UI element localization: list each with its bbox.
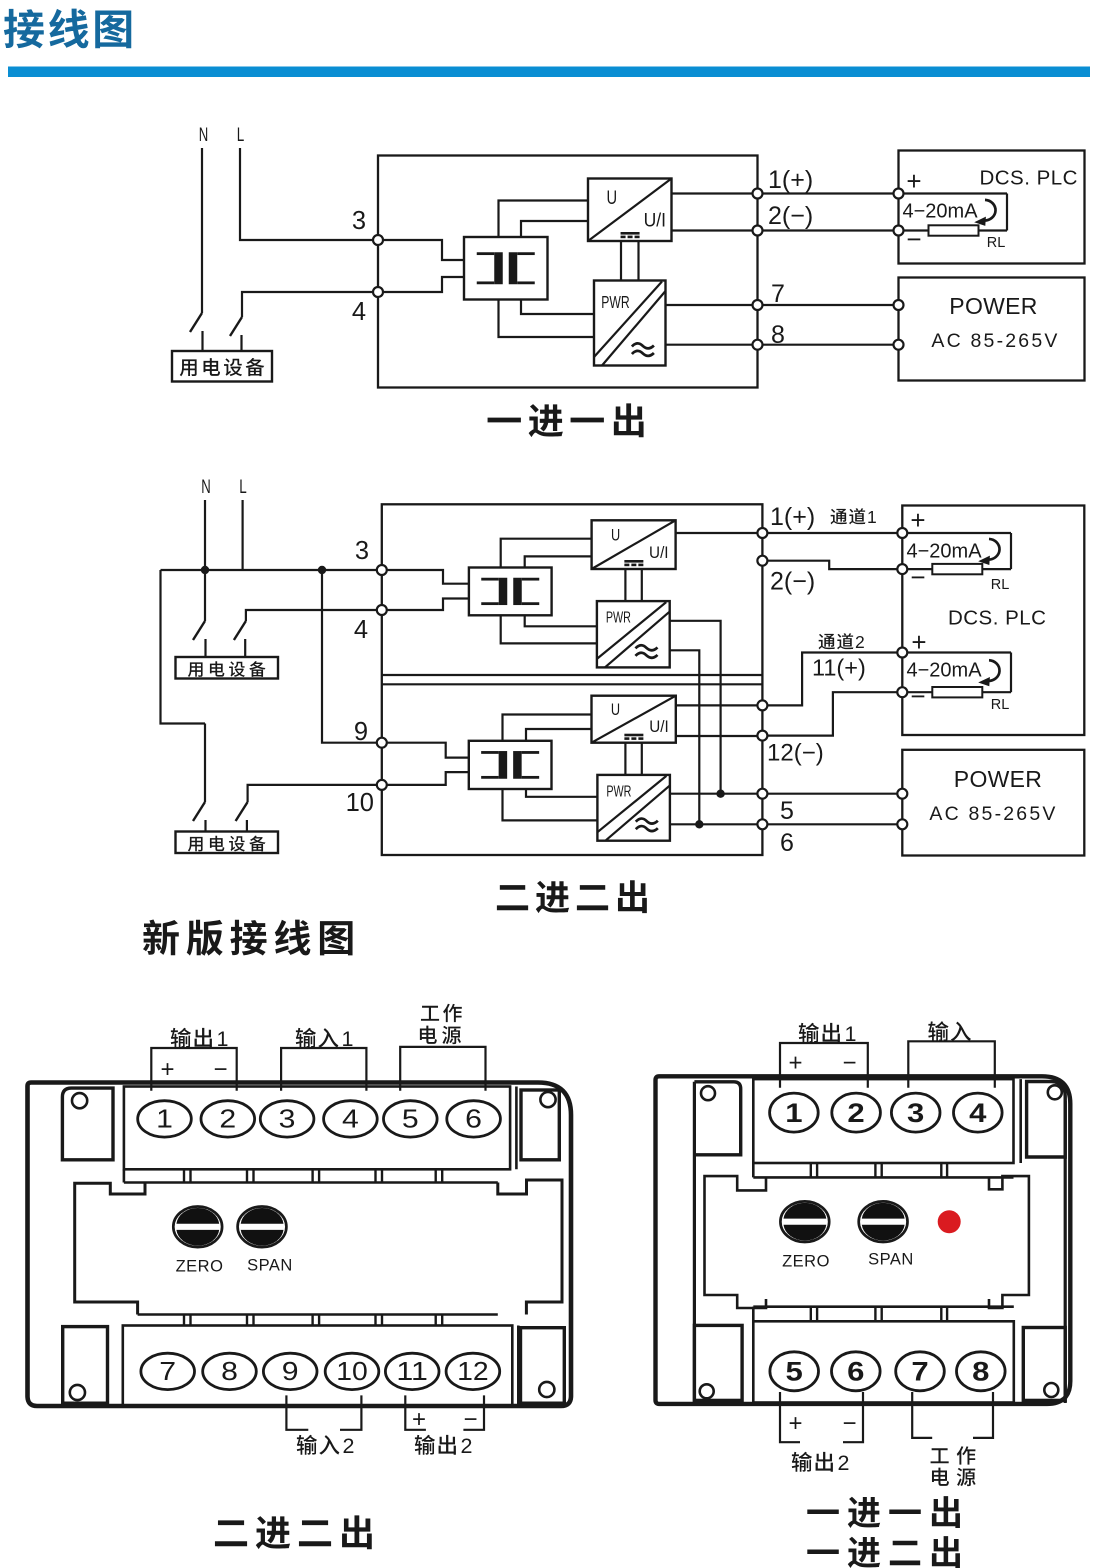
bracket 输出1 rb xyxy=(780,1043,868,1088)
svg-text:N: N xyxy=(201,476,211,498)
screw tab bottom-left rb xyxy=(694,1325,742,1400)
terminal 3 ellipse rb xyxy=(891,1093,940,1132)
svg-text:U: U xyxy=(606,188,617,209)
switch S6 d2 xyxy=(236,802,248,821)
svg-text:10: 10 xyxy=(346,789,374,817)
svg-text:2(−): 2(−) xyxy=(768,202,813,230)
screw tab bottom-right xyxy=(521,1328,565,1404)
top terminal strip xyxy=(124,1087,510,1170)
caption 一进二出 rb xyxy=(807,1550,838,1554)
bracket 输出2 rb xyxy=(780,1392,800,1442)
svg-text:8: 8 xyxy=(972,1357,989,1387)
svg-text:ZERO: ZERO xyxy=(176,1258,224,1276)
terminal 4 ellipse rb xyxy=(954,1093,1003,1132)
svg-text:5: 5 xyxy=(786,1357,803,1387)
4-20mA loop ch1 xyxy=(902,532,1011,534)
bracket 工作电源 xyxy=(400,1047,485,1091)
diagram 1: one-in one-out xyxy=(172,124,1085,437)
svg-text:8: 8 xyxy=(221,1356,238,1386)
svg-text:1: 1 xyxy=(845,1022,857,1046)
label 通道2 xyxy=(819,634,835,650)
POWER box D2 xyxy=(902,750,1084,856)
svg-text:N: N xyxy=(199,124,209,146)
screw tab top-left rb xyxy=(694,1082,740,1155)
terminal 2 ellipse rb xyxy=(832,1093,881,1132)
top terminal strip rb xyxy=(753,1079,1013,1163)
transformer T1 xyxy=(464,237,548,300)
wire t4 to transformer T2 xyxy=(387,599,469,611)
terminal layout drawing: 二进二出 module xyxy=(28,1004,572,1550)
svg-text:4−20mA: 4−20mA xyxy=(907,660,983,682)
POWER box D1 xyxy=(899,278,1085,381)
svg-text:1: 1 xyxy=(217,1027,229,1051)
screw tab top-left xyxy=(62,1088,113,1160)
terminal 1(+) node d2 xyxy=(757,528,767,538)
wire T3 to U/I U3 upper xyxy=(503,715,592,741)
wire rail to terminal 9 xyxy=(322,570,382,743)
svg-text:3: 3 xyxy=(279,1103,296,1133)
svg-text:+: + xyxy=(788,1049,802,1076)
svg-text:L: L xyxy=(237,124,245,146)
terminal 10 ellipse xyxy=(325,1353,379,1389)
svg-text:DCS. PLC: DCS. PLC xyxy=(948,607,1047,630)
terminal 7 ellipse rb xyxy=(896,1352,945,1391)
wire T1 to PWR (lower) xyxy=(499,300,595,338)
svg-text:4: 4 xyxy=(969,1098,986,1128)
terminal 5 node xyxy=(757,789,767,799)
partition rail upper xyxy=(382,674,763,676)
wire N feeder xyxy=(201,148,203,313)
terminal 1 ellipse xyxy=(138,1101,192,1137)
bracket 输入2 xyxy=(286,1395,308,1429)
wire ch1 output 2(-) with jog xyxy=(762,561,902,569)
bracket 输出1 xyxy=(151,1048,236,1091)
wire T2 to PWR2 upper xyxy=(525,615,597,626)
wire 5 xyxy=(670,793,902,795)
svg-text:5: 5 xyxy=(780,797,794,825)
junction dot on wire 6 xyxy=(695,820,703,828)
svg-text:2(−): 2(−) xyxy=(770,568,815,596)
wire left branch down xyxy=(161,570,206,724)
terminal 2(-) node xyxy=(753,226,763,236)
middle section outline rb xyxy=(705,1176,767,1308)
screw tab bottom-left xyxy=(63,1327,108,1404)
wires U3 to PWR3 xyxy=(624,743,626,775)
caption 二进二出 xyxy=(497,885,528,910)
svg-text:U: U xyxy=(611,701,620,719)
inner wall right xyxy=(1064,1101,1067,1403)
terminal 4 ellipse xyxy=(324,1101,378,1137)
wire terminal10 branch d2 xyxy=(248,785,382,802)
caption 二进二出 bottom-left xyxy=(215,1520,247,1546)
svg-text:PWR: PWR xyxy=(606,783,631,800)
svg-text:ZERO: ZERO xyxy=(782,1253,830,1271)
wire output 7 xyxy=(666,304,899,306)
svg-text:12(−): 12(−) xyxy=(767,740,824,767)
svg-text:3: 3 xyxy=(352,207,366,235)
svg-text:SPAN: SPAN xyxy=(247,1257,293,1275)
wire T1 to PWR (upper) xyxy=(521,300,594,315)
wire N feeder d2 xyxy=(204,500,206,570)
wire T2 to PWR2 lower xyxy=(501,615,597,643)
DCS + node xyxy=(894,189,904,199)
svg-text:+: + xyxy=(910,505,925,535)
svg-text:1(+): 1(+) xyxy=(768,166,813,194)
bottom comb band xyxy=(138,1313,498,1316)
svg-text:−: − xyxy=(910,681,925,711)
terminal 6 node xyxy=(757,819,767,829)
wires U2 to PWR2 xyxy=(624,569,626,601)
terminal 8 node xyxy=(753,340,763,350)
terminal 2(-) node d2 xyxy=(757,556,767,566)
POWER node 8 xyxy=(894,340,904,350)
svg-text:POWER: POWER xyxy=(949,293,1037,319)
U/I converter U3 xyxy=(592,696,676,743)
load box 用电设备 #1 xyxy=(172,351,272,382)
svg-text:2: 2 xyxy=(847,1098,864,1128)
svg-text:2: 2 xyxy=(855,632,865,652)
switch S3 on N d2 xyxy=(204,571,206,621)
caption 一进一出 rb xyxy=(807,1510,838,1514)
partition rail lower xyxy=(382,683,763,685)
diagram 2: two-in two-out xyxy=(161,476,1085,913)
terminal 6 ellipse rb xyxy=(832,1352,881,1391)
svg-text:11: 11 xyxy=(396,1356,428,1386)
wire L feeder xyxy=(240,148,378,240)
power module PWR2 xyxy=(597,601,670,667)
red LED indicator xyxy=(938,1210,961,1233)
wire T3 to PWR3 upper xyxy=(526,789,597,797)
label 通道1 xyxy=(831,509,847,525)
svg-text:+: + xyxy=(412,1406,426,1433)
svg-text:6: 6 xyxy=(465,1103,482,1133)
svg-text:−: − xyxy=(842,1049,856,1076)
bracket 工作电源 rb xyxy=(912,1392,932,1438)
SPAN potentiometer xyxy=(238,1207,287,1248)
wire terminal4 to switch S2 xyxy=(242,292,378,317)
switch S1 on N feeder xyxy=(190,313,202,332)
screw tab top-right xyxy=(521,1090,559,1160)
switch S2 on L feeder xyxy=(230,317,242,336)
4-20mA loop D1 xyxy=(899,192,1008,194)
load box 用电设备 #3 xyxy=(176,832,279,854)
terminal 5 ellipse rb xyxy=(770,1352,819,1391)
unit2 transformer wires from terminals xyxy=(387,743,469,758)
junction dot on wire 5 xyxy=(716,790,724,798)
svg-text:RL: RL xyxy=(991,697,1010,713)
bottom terminal strip xyxy=(123,1326,513,1406)
svg-text:−: − xyxy=(463,1406,477,1433)
svg-text:L: L xyxy=(239,476,247,498)
terminal 1(+) node xyxy=(753,189,763,199)
wire PWR2 out to wire5 xyxy=(670,621,721,794)
wire output 1(+) xyxy=(672,192,899,194)
svg-text:2: 2 xyxy=(343,1434,355,1458)
svg-text:POWER: POWER xyxy=(954,766,1042,792)
DCS PLC box D2 xyxy=(902,506,1084,736)
terminal 8 ellipse xyxy=(203,1353,257,1389)
top comb band xyxy=(124,1181,498,1184)
ZERO potentiometer xyxy=(173,1207,222,1248)
terminal 7 ellipse xyxy=(141,1353,195,1389)
ZERO potentiometer rb xyxy=(780,1201,829,1242)
svg-text:−: − xyxy=(910,562,925,592)
svg-text:7: 7 xyxy=(771,280,785,308)
wire T1 to U/I converter (lower) xyxy=(521,221,588,237)
wire t3 to transformer T2 xyxy=(387,570,469,584)
terminal 4 node d2 xyxy=(377,605,387,615)
top comb band rb xyxy=(753,1176,1013,1179)
svg-text:AC 85-265V: AC 85-265V xyxy=(931,330,1059,352)
caption 一进一出 xyxy=(488,418,521,423)
svg-text:6: 6 xyxy=(780,829,794,857)
wire T3 to PWR3 lower xyxy=(503,789,598,820)
svg-text:U/I: U/I xyxy=(644,211,666,232)
screw tab top-right rb xyxy=(1027,1082,1066,1158)
case outline right module xyxy=(656,1076,1071,1404)
wire T1 to U/I converter (upper) xyxy=(499,201,589,238)
wire ch2 output 12(-) xyxy=(676,735,763,737)
svg-text:1: 1 xyxy=(342,1027,354,1051)
svg-text:RL: RL xyxy=(987,235,1006,251)
svg-text:1(+): 1(+) xyxy=(770,503,815,531)
terminal 10 node xyxy=(377,780,387,790)
terminal 9 ellipse xyxy=(263,1353,317,1389)
DCS - node xyxy=(894,226,904,236)
inner wall left xyxy=(693,1082,696,1403)
terminal 8 ellipse rb xyxy=(957,1352,1006,1391)
svg-text:RL: RL xyxy=(991,577,1010,593)
bracket 输入1 xyxy=(281,1048,366,1091)
terminal 3 node d2 xyxy=(377,565,387,575)
transformer T3 xyxy=(469,741,552,789)
wire T2 to U/I U2 upper xyxy=(501,539,592,568)
svg-text:9: 9 xyxy=(282,1356,299,1386)
svg-text:+: + xyxy=(160,1056,174,1083)
svg-text:6: 6 xyxy=(847,1357,864,1387)
svg-text:4: 4 xyxy=(342,1103,359,1133)
bracket 输出2 xyxy=(405,1395,426,1429)
wire T3 to U/I U3 lower xyxy=(526,729,592,741)
svg-text:7: 7 xyxy=(159,1356,176,1386)
wire L feeder d2 xyxy=(242,500,244,569)
svg-text:SPAN: SPAN xyxy=(868,1251,914,1269)
junction dot N-rail xyxy=(201,566,209,574)
terminal 6 ellipse xyxy=(447,1101,501,1137)
svg-text:−: − xyxy=(906,224,921,254)
terminal 11 ellipse xyxy=(385,1353,439,1389)
svg-text:PWR: PWR xyxy=(601,292,629,312)
wire terminal3 to transformer T1 xyxy=(383,240,464,260)
wire terminal4 branch d2 xyxy=(246,610,382,621)
load box 用电设备 #2 xyxy=(176,657,279,679)
svg-text:5: 5 xyxy=(402,1103,419,1133)
middle section outline xyxy=(75,1183,145,1315)
svg-text:PWR: PWR xyxy=(606,610,631,627)
wire 6 xyxy=(670,823,902,825)
screw tab bottom-right rb xyxy=(1023,1328,1065,1401)
page title 接线图 xyxy=(4,9,44,49)
isolator outer box D1 xyxy=(378,156,758,388)
svg-text:3: 3 xyxy=(907,1098,924,1128)
wire output 2(-) xyxy=(672,229,899,231)
wire U1 to PWR (left) xyxy=(620,241,622,281)
svg-text:U: U xyxy=(611,526,620,544)
svg-text:4: 4 xyxy=(354,616,368,644)
wire PWR2 out to wire6 xyxy=(670,650,700,824)
terminal 12(-) node xyxy=(757,731,767,741)
POWER node 7 xyxy=(894,300,904,310)
svg-text:DCS. PLC: DCS. PLC xyxy=(979,167,1078,190)
svg-text:2: 2 xyxy=(461,1434,473,1458)
svg-text:2: 2 xyxy=(838,1451,850,1475)
svg-text:+: + xyxy=(788,1410,802,1437)
svg-text:12: 12 xyxy=(457,1356,489,1386)
power module PWR1 xyxy=(594,281,666,366)
svg-text:1: 1 xyxy=(867,507,877,527)
terminal 3 node xyxy=(373,235,383,245)
caption 新版接线图 xyxy=(143,920,179,956)
case outline left module xyxy=(28,1083,572,1407)
terminal layout drawing: 一进一出/一进二出 module xyxy=(656,1021,1071,1568)
terminal 12 ellipse xyxy=(446,1353,500,1389)
wire terminal4 to transformer T1 xyxy=(383,277,464,292)
transformer T2 xyxy=(469,568,552,616)
isolator outer box D2 xyxy=(382,504,763,855)
power module PWR3 xyxy=(597,775,670,841)
svg-text:−: − xyxy=(842,1410,856,1437)
wire T2 to U/I U2 lower xyxy=(525,556,592,567)
terminal 9 node xyxy=(377,738,387,748)
DCS PLC box D1 xyxy=(899,151,1085,264)
terminal 7 node xyxy=(753,300,763,310)
svg-text:1: 1 xyxy=(156,1103,173,1133)
svg-text:U/I: U/I xyxy=(649,718,669,736)
wire N lower branch to switch xyxy=(204,724,206,803)
svg-text:9: 9 xyxy=(354,718,368,746)
terminal 1 ellipse rb xyxy=(770,1093,819,1132)
svg-text:4: 4 xyxy=(352,298,366,326)
svg-text:10: 10 xyxy=(336,1356,368,1386)
svg-text:+: + xyxy=(906,166,921,196)
switch S4 d2 xyxy=(234,621,246,640)
svg-text:AC 85-265V: AC 85-265V xyxy=(929,803,1057,825)
bottom terminal strip rb xyxy=(753,1321,1014,1402)
terminal 4 node xyxy=(373,287,383,297)
svg-text:3: 3 xyxy=(355,537,369,565)
terminal 5 ellipse xyxy=(384,1101,438,1137)
wire output 8 xyxy=(666,344,899,346)
svg-text:U/I: U/I xyxy=(649,544,669,562)
4-20mA loop ch2 xyxy=(902,651,1011,653)
SPAN potentiometer rb xyxy=(859,1201,908,1242)
svg-text:8: 8 xyxy=(771,321,785,349)
terminal 11(+) node xyxy=(757,700,767,710)
svg-text:−: − xyxy=(213,1056,227,1083)
wire ch1 output 1(+) xyxy=(676,532,903,534)
svg-text:11(+): 11(+) xyxy=(812,655,866,681)
junction dot mid-rail xyxy=(318,566,326,574)
terminal 3 ellipse xyxy=(260,1101,314,1137)
svg-text:4−20mA: 4−20mA xyxy=(903,201,979,223)
svg-text:1: 1 xyxy=(785,1098,802,1128)
svg-text:7: 7 xyxy=(911,1357,928,1387)
svg-text:2: 2 xyxy=(219,1103,236,1133)
terminal 2 ellipse xyxy=(201,1101,255,1137)
blue divider bar xyxy=(8,67,1090,78)
wire U1 to PWR (right) xyxy=(637,241,639,281)
U/I converter U1 xyxy=(588,179,672,242)
rail wire to terminal 3 d2 xyxy=(161,569,382,571)
bottom comb band rb xyxy=(753,1305,1014,1308)
svg-text:4−20mA: 4−20mA xyxy=(907,541,983,563)
U/I converter U2 xyxy=(592,520,676,569)
bracket 输入 rb xyxy=(908,1041,995,1088)
wire ch2 output 11(+) xyxy=(676,704,763,706)
